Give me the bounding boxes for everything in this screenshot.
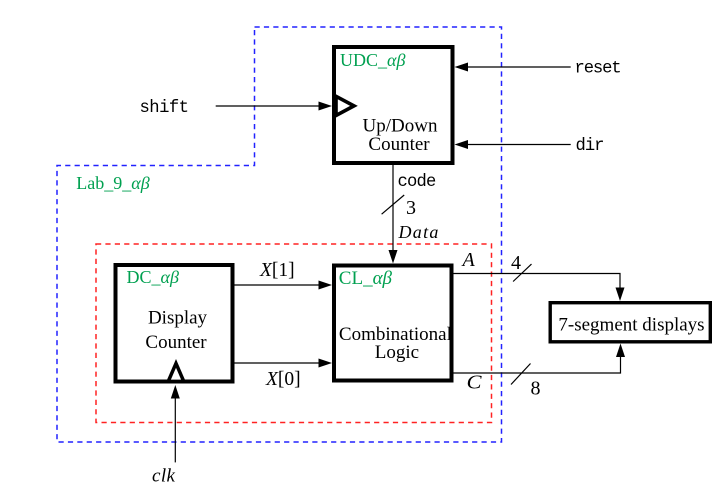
svg-text:Lab_9_αβ: Lab_9_αβ: [76, 173, 149, 193]
boundary Lab_9 blue dashed outline: [57, 27, 502, 442]
svg-text:UDC_αβ: UDC_αβ: [340, 50, 405, 70]
arrowhead code: [389, 250, 398, 264]
block UDC: Up/Down Counter: [334, 47, 453, 163]
svg-text:clk: clk: [152, 466, 176, 487]
wire C bus CL to displays: [454, 356, 621, 373]
wire reset: [466, 66, 571, 68]
bus slash A: [513, 264, 531, 281]
boundary display-subsystem red dashed outline: [96, 244, 492, 423]
svg-text:Logic: Logic: [375, 342, 419, 363]
svg-text:X[0]: X[0]: [265, 369, 301, 390]
arrowhead reset: [455, 63, 469, 72]
svg-text:reset: reset: [575, 60, 621, 79]
block displays: 7-segment displays: [550, 303, 710, 342]
svg-text:X[1]: X[1]: [259, 260, 295, 281]
wire X[1] DC to CL: [235, 284, 321, 286]
svg-text:Data: Data: [398, 222, 440, 242]
bus slash C: [511, 364, 531, 385]
svg-text:Display: Display: [148, 307, 208, 328]
svg-text:4: 4: [511, 252, 521, 274]
svg-text:C: C: [467, 372, 483, 394]
block CL: Combinational Logic: [334, 266, 452, 381]
svg-text:Counter: Counter: [145, 332, 207, 353]
wire dir: [466, 144, 571, 146]
block DC: Display Counter: [116, 265, 233, 382]
svg-text:dir: dir: [576, 137, 604, 156]
arrowhead A: [616, 288, 625, 302]
svg-text:Counter: Counter: [368, 134, 430, 155]
arrowhead dir: [455, 140, 469, 149]
svg-text:8: 8: [531, 378, 541, 400]
svg-text:3: 3: [406, 197, 416, 219]
svg-text:A: A: [461, 249, 476, 271]
svg-text:CL_αβ: CL_αβ: [339, 268, 393, 289]
arrowhead X[0]: [319, 359, 333, 368]
svg-text:shift: shift: [140, 99, 189, 118]
wire code bus UDC to CL: [392, 165, 394, 252]
arrowhead clk: [171, 385, 180, 399]
arrowhead shift: [319, 102, 333, 111]
wire X[0] DC to CL: [235, 362, 321, 364]
svg-text:code: code: [398, 173, 436, 192]
bus slash code: [382, 195, 405, 214]
clock input chevron on UDC left edge: [336, 96, 354, 115]
clock input chevron on DC bottom edge: [166, 359, 187, 383]
svg-text:7-segment displays: 7-segment displays: [558, 314, 704, 335]
svg-text:DC_αβ: DC_αβ: [127, 267, 179, 287]
wire clk: [174, 396, 176, 462]
arrowhead C: [616, 344, 625, 358]
arrowhead X[1]: [319, 281, 333, 290]
wire shift: [216, 105, 320, 107]
wire A bus CL to displays: [454, 274, 621, 291]
